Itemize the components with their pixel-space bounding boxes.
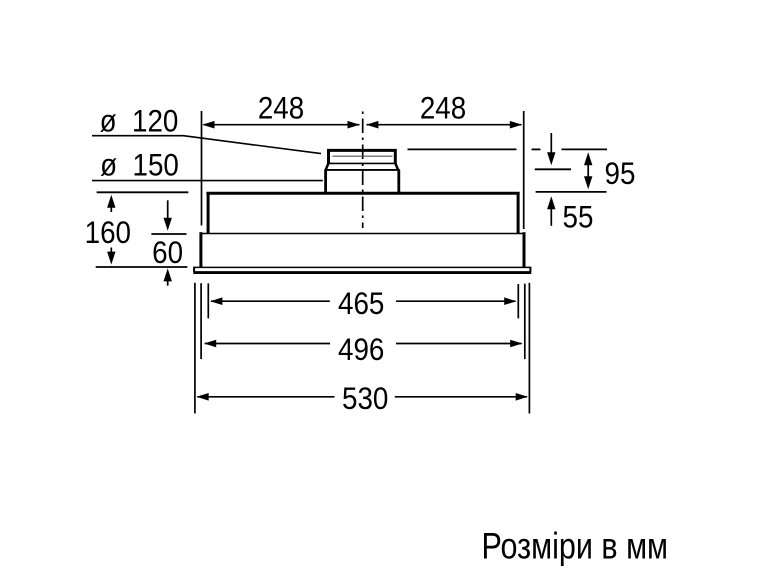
label: 95 [605, 157, 636, 192]
hood duct collar: d150 section right side [397, 170, 400, 193]
svg-text:Розміри в мм: Розміри в мм [482, 526, 669, 567]
svg-text:55: 55 [563, 200, 594, 235]
dimension 60: top reference line [151, 233, 186, 235]
dimension 248 right: extension line [523, 111, 525, 229]
hood duct collar: upper (d120) section [329, 150, 396, 163]
svg-text:60: 60 [152, 236, 183, 271]
dimension 160: bottom reference line [96, 266, 188, 268]
reference line: duct top level [408, 148, 608, 150]
extension lines below hood (right group) [518, 283, 529, 414]
dimension 160: up arrow [107, 195, 115, 212]
label: 465 [338, 287, 384, 322]
svg-text:160: 160 [85, 216, 131, 251]
dimension 248 left: extension line [201, 111, 203, 226]
dimension 496: dimension line with arrows [204, 340, 522, 348]
dimension 160: top reference line [97, 191, 189, 193]
reference line: hood top level right [536, 191, 607, 193]
label: diameter 120 [100, 104, 179, 139]
dimension 530: dimension line with arrows [197, 393, 528, 401]
label: 60 [152, 236, 183, 271]
hood bottom lip: left edge [193, 267, 195, 272]
label: 496 [338, 332, 384, 367]
hood duct collar: flare right [395, 163, 398, 170]
hood body: upper left side [207, 192, 210, 233]
label: diameter 150 [100, 148, 179, 183]
dimension 95: double arrow [584, 152, 592, 189]
dimension 60: lower arrow [164, 268, 172, 285]
svg-text:ø 150: ø 150 [100, 148, 179, 183]
centerline (dash-dot) [362, 112, 364, 229]
svg-text:248: 248 [258, 91, 304, 126]
svg-text:ø 120: ø 120 [100, 104, 179, 139]
hood body: top edge [206, 192, 519, 195]
label: 160 [85, 216, 131, 251]
hood body: step line [200, 233, 525, 235]
label: 248 right [420, 91, 466, 126]
hood duct collar: lower step line [324, 169, 400, 171]
label: 248 left [258, 91, 304, 126]
dimension 160: down arrow [107, 248, 115, 265]
hood body: middle right side [523, 232, 526, 267]
svg-text:496: 496 [338, 332, 384, 367]
svg-text:248: 248 [420, 91, 466, 126]
wire: leader line for diameter 120 [92, 136, 321, 154]
hood bottom lip: top line [194, 266, 531, 268]
hood bottom lip: right edge [529, 267, 531, 272]
hood body: middle left side [199, 232, 202, 267]
hood duct collar: inner edge line [333, 155, 393, 157]
hood duct collar: flare left [326, 163, 329, 170]
hood duct collar: upper step line [327, 162, 396, 164]
label: 530 [342, 382, 388, 417]
dimension 55: upper arrow [547, 133, 555, 165]
dimension 55: lower arrow [547, 196, 555, 226]
hood duct collar: d150 section left side [324, 170, 327, 193]
svg-text:530: 530 [342, 382, 388, 417]
label: 55 [563, 200, 594, 235]
hood body: upper right side [517, 192, 520, 233]
wire: leader line for diameter 150 [92, 180, 323, 182]
svg-text:465: 465 [338, 287, 384, 322]
dimension 248 right: dimension line with arrows [366, 121, 522, 129]
reference line: collar top level [535, 168, 571, 170]
hood bottom lip: bottom edge [193, 271, 531, 274]
dimension 60: upper arrow [164, 200, 172, 231]
extension lines below hood (left group) [195, 283, 208, 414]
caption: dimensions in mm [482, 526, 669, 567]
dimension 465: dimension line with arrows [210, 297, 516, 305]
dimension 248 left: dimension line with arrows [202, 121, 359, 129]
svg-text:95: 95 [605, 157, 636, 192]
